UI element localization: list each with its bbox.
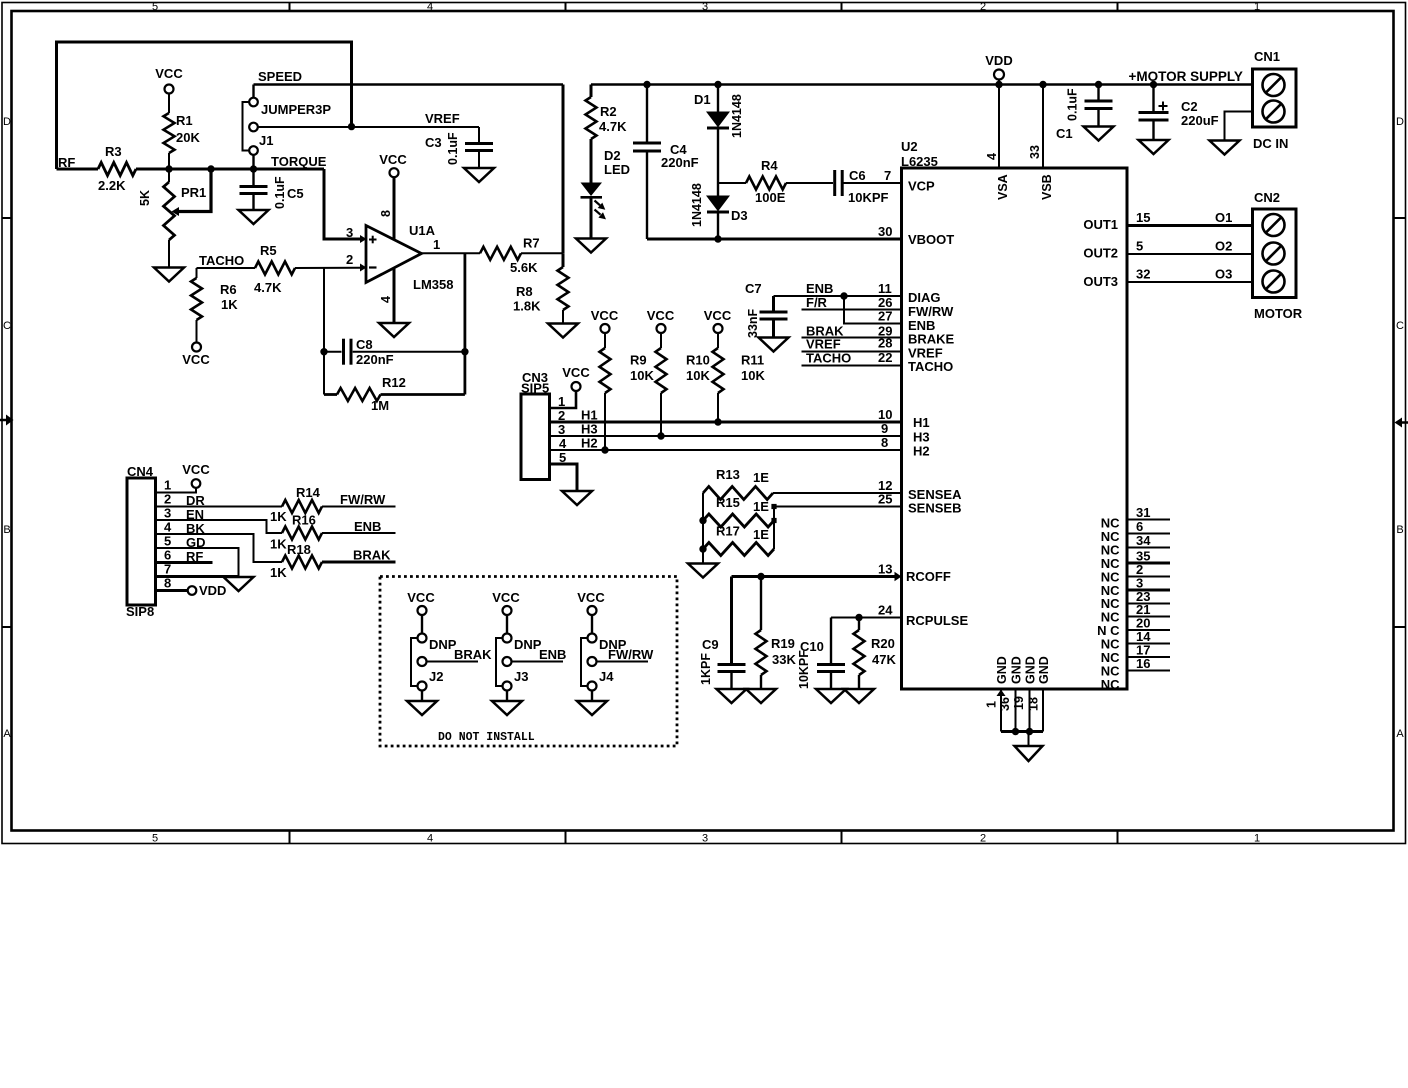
jumper J4 DNP (581, 615, 654, 701)
svg-text:R2: R2 (600, 104, 617, 119)
svg-text:11: 11 (878, 281, 892, 296)
ground (J3) (492, 701, 522, 715)
svg-text:20K: 20K (176, 130, 200, 145)
svg-text:CN1: CN1 (1254, 49, 1280, 64)
svg-text:J3: J3 (514, 669, 528, 684)
svg-text:LM358: LM358 (413, 277, 453, 292)
svg-text:R19: R19 (771, 636, 795, 651)
resistor R5 4.7K (254, 243, 360, 295)
capacitor C1 0.1uF (1056, 81, 1113, 141)
jumper J2 DNP (411, 615, 492, 701)
resistor R8 1.8K (513, 253, 569, 323)
svg-text:VCC: VCC (591, 308, 619, 323)
wire OUT2 / O2 (1127, 239, 1253, 255)
svg-text:VSB: VSB (1040, 174, 1054, 200)
power VCC (R9) (591, 308, 619, 333)
resistor R10 10K (656, 333, 711, 436)
resistor R15 1E (703, 495, 774, 527)
node RF (58, 155, 75, 170)
connector CN3 SIP5 (521, 370, 567, 480)
node junction C8 left (320, 348, 327, 355)
svg-text:ENB: ENB (539, 647, 566, 662)
wire RCOFF line pin 13 (732, 562, 902, 582)
svg-text:1N4148: 1N4148 (690, 183, 704, 227)
svg-text:28: 28 (878, 336, 892, 351)
svg-text:4: 4 (379, 296, 393, 303)
potentiometer PR1 5K (138, 169, 211, 268)
svg-text:0.1uF: 0.1uF (446, 132, 460, 165)
ground (R20) (844, 689, 874, 703)
svg-text:4: 4 (985, 153, 999, 160)
svg-text:4: 4 (164, 520, 172, 535)
svg-text:JUMPER3P: JUMPER3P (261, 102, 331, 117)
svg-text:U2: U2 (901, 139, 918, 154)
svg-text:24: 24 (878, 603, 893, 618)
resistor R3 (98, 144, 136, 193)
wire U2 ground pins 1/36/19/18 (985, 656, 1052, 746)
wire ENB to pin 27 (844, 296, 902, 324)
svg-text:BRAK: BRAK (353, 548, 391, 563)
resistor R19 33K (756, 577, 797, 690)
svg-text:10KPF: 10KPF (797, 650, 811, 689)
svg-text:D: D (3, 116, 11, 128)
svg-text:SIP5: SIP5 (521, 381, 549, 396)
wire SENSEA line (773, 478, 902, 493)
node +MOTOR SUPPLY (1129, 69, 1243, 84)
svg-text:U1A: U1A (409, 223, 436, 238)
svg-text:19: 19 (1012, 696, 1026, 710)
resistor R20 47K (854, 618, 897, 690)
svg-text:1M: 1M (371, 398, 389, 413)
svg-text:C9: C9 (702, 637, 719, 652)
svg-text:D1: D1 (694, 92, 711, 107)
svg-text:MOTOR: MOTOR (1254, 306, 1303, 321)
svg-text:VCC: VCC (704, 308, 732, 323)
svg-text:0.1uF: 0.1uF (273, 176, 287, 209)
wire TACHO net stub (802, 350, 902, 366)
svg-text:1: 1 (1254, 833, 1260, 845)
wire VREF net (352, 111, 480, 144)
svg-text:100E: 100E (755, 190, 786, 205)
wire SENSEB line (774, 492, 902, 507)
ground (CN4) (224, 577, 254, 591)
power VCC (R11) (704, 308, 732, 333)
node junction R1/PR1 (165, 165, 172, 172)
wire CN4 pin5 GD to ground (156, 548, 239, 577)
svg-text:7: 7 (884, 168, 891, 183)
svg-text:C7: C7 (745, 281, 762, 296)
svg-text:1.8K: 1.8K (513, 299, 541, 314)
svg-text:CN4: CN4 (127, 464, 154, 479)
wire CN4 pin6 RF stub (156, 561, 213, 564)
resistor R11 10K (713, 333, 766, 422)
capacitor C4 220nF (633, 81, 699, 239)
wire RF to R3 (57, 168, 99, 171)
power VCC (J3) (492, 590, 520, 615)
svg-text:1K: 1K (270, 565, 287, 580)
svg-text:47K: 47K (872, 652, 896, 667)
svg-text:C6: C6 (849, 168, 866, 183)
svg-text:1: 1 (1254, 1, 1260, 13)
resistor R7 5.6K (480, 236, 563, 276)
svg-text:VREF: VREF (806, 337, 841, 352)
svg-text:DIAG: DIAG (908, 290, 941, 305)
svg-text:R7: R7 (523, 236, 540, 251)
svg-text:4: 4 (427, 1, 433, 13)
svg-text:10KPF: 10KPF (848, 190, 889, 205)
node junction R9 (601, 446, 608, 453)
svg-text:J1: J1 (259, 133, 273, 148)
power VCC (CN3 pin1) (562, 365, 590, 391)
svg-text:TORQUE: TORQUE (271, 154, 327, 169)
LED D2 (581, 148, 631, 239)
svg-text:VBOOT: VBOOT (908, 232, 954, 247)
ground (below R8) (548, 324, 578, 338)
wire VCC to R1 (168, 94, 170, 114)
svg-text:CN2: CN2 (1254, 190, 1280, 205)
svg-text:220nF: 220nF (661, 155, 699, 170)
wire F/R net (802, 295, 902, 310)
svg-text:GND: GND (1010, 656, 1024, 684)
resistor R9 10K (600, 333, 655, 450)
resistor R18 1K (156, 534, 396, 580)
svg-text:R15: R15 (716, 495, 740, 510)
wire CN4 pin8 to VDD (156, 583, 227, 598)
svg-text:VCC: VCC (155, 66, 183, 81)
wire sense right rail (771, 504, 776, 549)
svg-text:10K: 10K (741, 368, 765, 383)
svg-text:R20: R20 (871, 636, 895, 651)
svg-text:VCC: VCC (379, 152, 407, 167)
svg-text:O2: O2 (1215, 239, 1232, 254)
svg-text:H2: H2 (581, 436, 598, 451)
svg-text:PR1: PR1 (181, 185, 206, 200)
svg-text:C8: C8 (356, 337, 373, 352)
svg-text:TACHO: TACHO (908, 359, 953, 374)
wire CN1 pin2 to ground (1225, 112, 1253, 141)
svg-text:34: 34 (1136, 533, 1151, 548)
svg-text:VDD: VDD (199, 583, 226, 598)
svg-text:R9: R9 (630, 353, 647, 368)
wire CN4 pin1 to VCC (156, 488, 197, 493)
capacitor C10 10KPF (797, 618, 845, 690)
svg-text:36: 36 (998, 697, 1012, 711)
ground (below PR1) (154, 268, 184, 282)
svg-text:D: D (1396, 116, 1404, 128)
svg-text:H3: H3 (581, 422, 598, 437)
svg-text:1KPF: 1KPF (699, 653, 713, 685)
svg-text:VCC: VCC (407, 590, 435, 605)
svg-text:1N4148: 1N4148 (730, 94, 744, 138)
svg-text:10: 10 (878, 407, 892, 422)
capacitor C5 0.1uF (240, 169, 304, 210)
node junction C8 right (461, 348, 468, 355)
svg-text:4: 4 (427, 833, 433, 845)
capacitor C3 0.1uF (425, 132, 493, 168)
svg-text:5.6K: 5.6K (510, 260, 538, 275)
svg-text:GND: GND (995, 656, 1009, 684)
ground (below D2) (576, 239, 606, 253)
svg-text:1E: 1E (753, 527, 769, 542)
svg-text:220uF: 220uF (1181, 113, 1219, 128)
power VCC (CN4 pin1) (182, 462, 210, 488)
wire OUT3 / O3 (1127, 267, 1253, 283)
diode D3 1N4148 (690, 183, 748, 239)
jumper J3 DNP (496, 615, 566, 701)
svg-text:OUT3: OUT3 (1083, 274, 1118, 289)
svg-text:ENB: ENB (806, 281, 833, 296)
ground (sense rail) (688, 564, 718, 578)
svg-text:VCC: VCC (562, 365, 590, 380)
power VDD symbol (985, 53, 1013, 168)
wire VDD power rail (591, 83, 1253, 85)
svg-text:H1: H1 (581, 408, 598, 423)
node junction R10 (657, 432, 664, 439)
wire CN3 pin1 to VCC (550, 391, 577, 408)
connector CN2 MOTOR (1253, 190, 1303, 321)
svg-text:5: 5 (1136, 239, 1143, 254)
svg-text:3: 3 (702, 833, 708, 845)
svg-text:J2: J2 (429, 669, 443, 684)
node junction VBOOT (714, 235, 721, 242)
node junction wiper (207, 165, 214, 172)
wire RCPULSE line pin 24 (831, 603, 902, 622)
svg-text:18: 18 (1027, 697, 1041, 711)
svg-text:R11: R11 (741, 353, 764, 368)
wire J1 bottom pin (252, 155, 254, 169)
svg-text:3: 3 (702, 1, 708, 13)
ground (op-amp pin 4) (379, 323, 409, 337)
resistor R1 20K (164, 113, 201, 169)
svg-text:H2: H2 (913, 444, 930, 459)
ground (U2) (1015, 746, 1043, 761)
svg-text:R18: R18 (287, 542, 311, 557)
power VCC (J2) (407, 590, 435, 615)
capacitor C8 220nF (324, 337, 465, 367)
svg-text:TACHO: TACHO (199, 253, 244, 268)
wire U2 NC pins (1097, 505, 1170, 692)
resistor R17 1E (703, 524, 774, 556)
svg-text:R8: R8 (516, 284, 533, 299)
power VCC (R10) (647, 308, 675, 333)
wire op-amp output pin 1 (422, 252, 481, 254)
svg-text:13: 13 (878, 562, 892, 577)
svg-text:R13: R13 (716, 467, 740, 482)
ground (J2) (407, 701, 437, 715)
svg-text:4.7K: 4.7K (254, 280, 282, 295)
svg-text:OUT1: OUT1 (1083, 217, 1118, 232)
ground (J4) (577, 701, 607, 715)
wire CN4 pin7 (156, 575, 239, 578)
svg-text:1: 1 (164, 478, 171, 493)
svg-text:VCC: VCC (182, 462, 210, 477)
svg-text:3: 3 (346, 225, 353, 240)
svg-text:C5: C5 (287, 186, 304, 201)
svg-text:2: 2 (164, 492, 171, 507)
node TORQUE junction (250, 154, 327, 173)
svg-text:BRAKE: BRAKE (908, 332, 955, 347)
svg-text:5: 5 (152, 833, 158, 845)
svg-text:33: 33 (1028, 145, 1042, 159)
svg-text:5: 5 (164, 534, 171, 549)
svg-text:30: 30 (878, 224, 892, 239)
resistor R16 1K (156, 513, 396, 552)
svg-text:SENSEB: SENSEB (908, 501, 961, 516)
ground (below C1) (1084, 127, 1114, 141)
svg-text:220nF: 220nF (356, 352, 394, 367)
power VCC (R1 top) (155, 66, 183, 94)
svg-text:10K: 10K (686, 368, 710, 383)
svg-text:O3: O3 (1215, 267, 1232, 282)
resistor R12 1M (324, 253, 465, 413)
resistor R14 1K (156, 485, 396, 524)
svg-text:VCC: VCC (647, 308, 675, 323)
node junction VREF (348, 123, 355, 130)
wire BRAK net (802, 324, 902, 339)
svg-text:RCPULSE: RCPULSE (906, 613, 968, 628)
ground (below C7) (759, 338, 789, 352)
svg-text:ENB: ENB (354, 519, 381, 534)
wire H3 line (550, 421, 902, 437)
svg-text:10K: 10K (630, 368, 654, 383)
svg-text:B: B (3, 524, 10, 536)
svg-text:31: 31 (1136, 505, 1150, 520)
ground (CN3 pin5) (562, 491, 592, 505)
svg-text:LED: LED (604, 162, 630, 177)
svg-text:1K: 1K (221, 297, 238, 312)
svg-text:1K: 1K (270, 537, 287, 552)
resistor R4 100E (718, 158, 833, 205)
svg-text:C3: C3 (425, 135, 442, 150)
wire ENB net (774, 281, 902, 296)
svg-text:5: 5 (152, 1, 158, 13)
wire VREF net stub (802, 336, 902, 352)
svg-text:FW/RW: FW/RW (340, 492, 386, 507)
svg-text:R5: R5 (260, 243, 277, 258)
svg-text:DNP: DNP (429, 637, 457, 652)
svg-text:DO NOT INSTALL: DO NOT INSTALL (438, 731, 535, 744)
wire TORQUE to op-amp pin3 (324, 169, 360, 239)
capacitor C9 1KPF (699, 577, 746, 690)
svg-text:H1: H1 (913, 415, 930, 430)
svg-text:VCC: VCC (182, 352, 210, 367)
diode D1 1N4148 (694, 81, 744, 196)
svg-text:4.7K: 4.7K (599, 119, 627, 134)
jumper J1 JUMPER3P (243, 98, 332, 155)
svg-text:32: 32 (1136, 267, 1150, 282)
svg-text:2: 2 (346, 252, 353, 267)
svg-text:C: C (3, 320, 11, 332)
svg-text:B: B (1396, 524, 1403, 536)
svg-text:L6235: L6235 (901, 154, 938, 169)
svg-text:VSA: VSA (996, 174, 1010, 200)
svg-text:9: 9 (881, 421, 888, 436)
svg-text:R16: R16 (292, 513, 316, 528)
wire H2 line (550, 435, 902, 451)
power VCC (R6 bottom) (182, 343, 210, 368)
svg-text:GND: GND (1037, 656, 1051, 684)
svg-text:15: 15 (1136, 210, 1150, 225)
svg-text:VCC: VCC (577, 590, 605, 605)
connector CN4 SIP8 (126, 464, 206, 619)
svg-text:2.2K: 2.2K (98, 178, 126, 193)
svg-text:VDD: VDD (985, 53, 1012, 68)
svg-text:33K: 33K (772, 652, 796, 667)
ground (below C5) (239, 210, 269, 224)
svg-text:5K: 5K (138, 190, 152, 206)
svg-text:4: 4 (559, 436, 567, 451)
wire J1 middle pin to VREF node (258, 126, 352, 128)
ground (C10) (816, 689, 846, 703)
svg-text:R3: R3 (105, 144, 122, 159)
svg-text:C2: C2 (1181, 99, 1198, 114)
svg-text:J4: J4 (599, 669, 614, 684)
wire RF loop (57, 42, 352, 169)
svg-text:D2: D2 (604, 148, 621, 163)
svg-text:3: 3 (558, 422, 565, 437)
connector CN1 DC IN (1253, 49, 1297, 151)
svg-text:22: 22 (878, 350, 892, 365)
ground (below C2) (1139, 140, 1169, 154)
svg-text:OUT2: OUT2 (1083, 246, 1118, 261)
pin 30 label (878, 224, 892, 239)
wire OUT1 / O1 (1127, 210, 1253, 226)
svg-text:A: A (3, 728, 11, 740)
svg-text:0.1uF: 0.1uF (1066, 88, 1080, 121)
svg-text:R14: R14 (296, 485, 321, 500)
wire CN3 pin5 to ground (550, 464, 578, 491)
svg-text:GND: GND (1024, 656, 1038, 684)
wire R3 to TORQUE junction (136, 168, 324, 171)
svg-text:RCOFF: RCOFF (906, 569, 951, 584)
svg-text:NC: NC (1101, 677, 1120, 692)
svg-text:A: A (1396, 728, 1404, 740)
svg-text:6: 6 (1136, 519, 1143, 534)
svg-text:DC IN: DC IN (1253, 136, 1288, 151)
svg-text:1: 1 (433, 237, 440, 252)
border frame (decorative) (0, 1, 1408, 845)
resistor R13 1E (703, 467, 773, 500)
svg-text:27: 27 (878, 309, 892, 324)
svg-text:1E: 1E (753, 470, 769, 485)
svg-text:TACHO: TACHO (806, 351, 851, 366)
wire H1 line (550, 407, 902, 423)
svg-text:O1: O1 (1215, 210, 1232, 225)
wire SPEED net (254, 69, 564, 253)
svg-text:R17: R17 (716, 524, 740, 539)
svg-text:1: 1 (985, 701, 999, 708)
wire VBOOT line (647, 238, 902, 241)
svg-text:R10: R10 (686, 353, 710, 368)
svg-text:D3: D3 (731, 208, 748, 223)
wire TACHO net (197, 253, 256, 268)
svg-text:26: 26 (878, 295, 892, 310)
svg-text:6: 6 (164, 548, 171, 563)
svg-text:8: 8 (881, 435, 888, 450)
svg-text:F/R: F/R (806, 295, 828, 310)
svg-text:DNP: DNP (514, 637, 542, 652)
ground (R19) (746, 689, 776, 703)
svg-text:25: 25 (878, 492, 892, 507)
capacitor C2 220uF (1139, 81, 1219, 140)
svg-text:VCC: VCC (492, 590, 520, 605)
svg-text:8: 8 (379, 210, 393, 217)
DNP jumpers box (380, 577, 677, 747)
svg-text:3: 3 (164, 506, 171, 521)
svg-text:R4: R4 (761, 158, 778, 173)
svg-text:SIP8: SIP8 (126, 604, 154, 619)
capacitor C6 10KPF (835, 168, 902, 205)
